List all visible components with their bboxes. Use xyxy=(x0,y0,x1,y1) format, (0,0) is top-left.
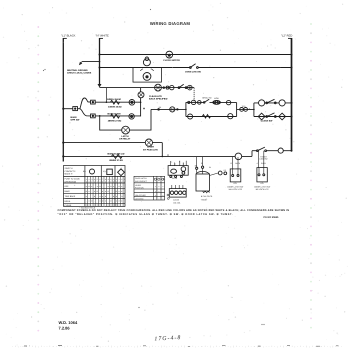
svg-text:CLOCK MOTOR: CLOCK MOTOR xyxy=(163,59,180,62)
svg-text:DO. DO.: DO. DO. xyxy=(173,202,181,205)
svg-text:o: o xyxy=(155,195,156,197)
svg-text:"N" WHITE: "N" WHITE xyxy=(96,35,109,38)
svg-text:BAKE: BAKE xyxy=(71,116,78,119)
svg-text:"OFF" OR "RELAXED" POSITION: "OFF" OR "RELAXED" POSITION. ① INDICATES… xyxy=(58,213,233,216)
svg-text:x: x xyxy=(119,204,120,207)
svg-text:TIME BAKE: TIME BAKE xyxy=(65,195,76,198)
svg-text:x: x xyxy=(105,200,106,203)
svg-text:BR.: BR. xyxy=(83,170,86,173)
svg-text:x: x xyxy=(102,195,103,198)
svg-text:LATCH: LATCH xyxy=(121,135,129,138)
svg-text:GHTR: GHTR xyxy=(172,177,178,180)
svg-text:o: o xyxy=(162,195,163,197)
svg-text:o: o xyxy=(158,191,159,193)
svg-text:DO.: DO. xyxy=(261,182,265,185)
svg-text:B-THL PR-78: B-THL PR-78 xyxy=(201,195,212,198)
svg-text:o: o xyxy=(158,186,159,188)
svg-text:x: x xyxy=(105,190,106,193)
svg-text:o: o xyxy=(155,191,156,193)
svg-text:K1: K1 xyxy=(163,178,165,181)
svg-text:7.2.86: 7.2.86 xyxy=(59,325,71,330)
svg-text:CLEAN SW: CLEAN SW xyxy=(261,120,274,123)
svg-text:3400W 16.9Ω: 3400W 16.9Ω xyxy=(108,106,122,109)
svg-text:x: x xyxy=(102,190,103,193)
svg-text:UNLATCHED: UNLATCHED xyxy=(135,194,147,197)
svg-text:2850W 27.9Ω: 2850W 27.9Ω xyxy=(109,159,123,162)
svg-text:x: x xyxy=(97,185,98,188)
svg-text:o: o xyxy=(158,198,159,200)
svg-text:DR RELAY: DR RELAY xyxy=(119,138,131,141)
svg-text:DOOR LATCH SW: DOOR LATCH SW xyxy=(254,185,270,188)
svg-text:x: x xyxy=(97,204,98,207)
svg-text:o: o xyxy=(162,198,163,200)
svg-text:W: W xyxy=(209,166,211,169)
svg-text:DO.: DO. xyxy=(234,182,238,185)
svg-text:LINER: LINER xyxy=(147,146,154,149)
svg-text:x: x xyxy=(86,195,87,198)
svg-text:BAKE ELEM: BAKE ELEM xyxy=(108,112,121,115)
svg-text:CLEAN: CLEAN xyxy=(65,204,72,207)
svg-text:CLEAN LITE: CLEAN LITE xyxy=(149,95,162,98)
svg-text:PD NO 55555: PD NO 55555 xyxy=(264,216,280,219)
svg-text:SW CONTACT: SW CONTACT xyxy=(135,180,148,183)
svg-text:"L1" BLACK: "L1" BLACK xyxy=(61,35,76,38)
svg-text:x: x xyxy=(113,204,114,207)
svg-text:BROIL: BROIL xyxy=(65,200,72,203)
svg-text:x: x xyxy=(99,200,100,203)
svg-text:MADE ①: MADE ① xyxy=(65,172,73,175)
svg-text:BROIL ELEM: BROIL ELEM xyxy=(107,98,121,101)
svg-text:CHECK LOCAL CODES: CHECK LOCAL CODES xyxy=(67,72,92,75)
svg-text:2850W 27.9Ω: 2850W 27.9Ω xyxy=(108,120,122,123)
svg-text:BY PASS LITE: BY PASS LITE xyxy=(143,148,158,151)
svg-text:x: x xyxy=(110,204,111,207)
svg-text:OVEN LITE SW: OVEN LITE SW xyxy=(185,70,202,73)
svg-text:o: o xyxy=(162,186,163,188)
svg-text:x: x xyxy=(119,190,120,193)
svg-text:BR LOCK LITE: BR LOCK LITE xyxy=(256,188,270,191)
svg-text:POSITION: POSITION xyxy=(135,187,144,190)
svg-text:PUSH TO COOK: PUSH TO COOK xyxy=(65,178,81,181)
svg-text:x: x xyxy=(121,190,122,193)
svg-text:x: x xyxy=(116,195,117,198)
svg-text:4: 4 xyxy=(257,162,258,165)
svg-text:x: x xyxy=(89,190,90,193)
svg-text:x: x xyxy=(86,185,87,188)
svg-text:CLEAN: CLEAN xyxy=(173,198,180,201)
svg-text:x: x xyxy=(94,190,95,193)
svg-text:MOD: MOD xyxy=(214,97,219,100)
svg-text:B-CH: B-CH xyxy=(236,162,241,165)
svg-text:OPERATION: OPERATION xyxy=(65,180,77,183)
svg-text:SWITCH: SWITCH xyxy=(65,167,73,170)
svg-text:x: x xyxy=(91,185,92,188)
svg-text:x: x xyxy=(121,200,122,203)
svg-text:o: o xyxy=(155,186,156,188)
svg-text:x: x xyxy=(121,185,122,188)
svg-text:LOW SW: LOW SW xyxy=(260,158,268,161)
svg-text:WH LOCK LITE: WH LOCK LITE xyxy=(229,188,243,191)
svg-text:THMST: THMST xyxy=(201,199,208,202)
svg-text:x: x xyxy=(108,185,109,188)
svg-text:DOOR LATCH: DOOR LATCH xyxy=(135,177,147,180)
svg-text:x: x xyxy=(86,204,87,207)
svg-text:OPR SW: OPR SW xyxy=(71,119,81,122)
svg-text:NEUTRAL GROUND: NEUTRAL GROUND xyxy=(67,69,88,72)
svg-text:x: x xyxy=(116,200,117,203)
svg-text:DOOR LATCH SW: DOOR LATCH SW xyxy=(227,185,243,188)
svg-text:COMPONENT SYMBOLS DO NOT R: COMPONENT SYMBOLS DO NOT REFLECT TRUE CO… xyxy=(58,209,290,212)
svg-text:x: x xyxy=(89,200,90,203)
svg-text:x: x xyxy=(99,195,100,198)
svg-text:SQ.: SQ. xyxy=(103,170,107,173)
svg-text:R-CH: R-CH xyxy=(261,162,266,165)
svg-text:BROIL SW: BROIL SW xyxy=(202,97,211,100)
svg-text:CONTACTS: CONTACTS xyxy=(65,170,77,173)
svg-text:"L2" RED: "L2" RED xyxy=(281,35,292,38)
svg-text:x: x xyxy=(113,185,114,188)
svg-text:x: x xyxy=(94,204,95,207)
svg-text:BAKE: BAKE xyxy=(65,190,71,193)
svg-text:BACK SPECIFIED: BACK SPECIFIED xyxy=(149,98,168,101)
svg-text:LATCHED: LATCHED xyxy=(135,198,144,201)
svg-text:BAKE ELEM LID: BAKE ELEM LID xyxy=(107,152,124,155)
